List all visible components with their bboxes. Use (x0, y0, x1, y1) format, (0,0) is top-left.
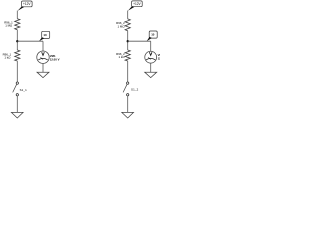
svg-text:10: 10 (43, 33, 47, 37)
svg-text:12.00 V: 12.00 V (50, 57, 60, 61)
resistor R1 (1 Mohm) zigzag (15, 19, 20, 30)
net label box (node, right) (147, 31, 158, 41)
wire: R3 bottom through junction to R4 top (127, 31, 129, 50)
wire: VM1 to ground (42, 63, 44, 72)
ground (under VM2) (145, 72, 157, 77)
ground (under VM1) (37, 72, 49, 77)
voltmeter VM1 (37, 51, 49, 63)
resistor R3 (1 Mohm) zigzag (125, 19, 130, 31)
svg-text:+12V: +12V (133, 2, 141, 6)
switch S1 (13, 82, 19, 96)
wire: flag to R3 top (127, 11, 129, 19)
wire: R2 bottom to switch (16, 61, 18, 82)
junction dot (16, 40, 18, 42)
wire: VM2 to ground (150, 63, 152, 72)
svg-text:1 kΩ: 1 kΩ (118, 55, 125, 59)
wire: down to voltmeter VM2 (150, 41, 152, 51)
wire: switch to ground (16, 96, 18, 113)
ground (bottom left) (11, 112, 23, 118)
wire: switch to ground (right) (127, 96, 129, 113)
wire: junction to meter column (17, 40, 43, 42)
resistor R4 (1 kohm) zigzag (125, 50, 130, 61)
wire: R1 bottom through junction to R2 top (16, 30, 18, 50)
junction dot (right) (127, 40, 129, 42)
power flag +12V (right) (128, 1, 142, 11)
power flag +12V (left) (18, 1, 33, 11)
svg-text:+12V: +12V (23, 2, 31, 6)
switch S2 (123, 82, 129, 96)
ground (bottom right) (122, 112, 134, 118)
wire: flag to R1 top (16, 11, 18, 19)
resistor R2 (1 kohm) zigzag (15, 50, 20, 61)
svg-text:10: 10 (151, 33, 155, 37)
voltmeter VM2 (145, 51, 157, 63)
wire: junction to meter column (right) (128, 40, 151, 42)
svg-text:1 kΩ: 1 kΩ (4, 56, 11, 60)
net label box (node 10) (39, 31, 50, 41)
svg-text:12.00 V: 12.00 V (158, 57, 160, 61)
svg-text:S1_1: S1_1 (20, 88, 28, 92)
svg-text:S1_2: S1_2 (131, 88, 139, 92)
wire: R4 bottom to switch (right) (127, 61, 129, 82)
svg-text:1 MΩ: 1 MΩ (118, 24, 126, 28)
wire: down to voltmeter VM1 (42, 41, 44, 51)
svg-text:1 MΩ: 1 MΩ (5, 23, 13, 27)
